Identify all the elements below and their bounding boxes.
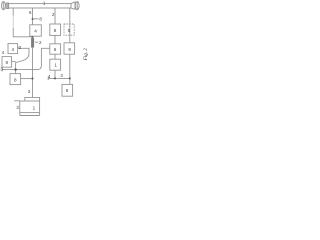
svg-text:4: 4 xyxy=(12,47,15,52)
svg-text:5: 5 xyxy=(68,28,71,33)
svg-text:8: 8 xyxy=(68,47,71,52)
svg-text:6: 6 xyxy=(54,47,57,52)
svg-text:8: 8 xyxy=(66,88,69,93)
svg-text:1: 1 xyxy=(33,106,36,111)
svg-text:Fig. 2: Fig. 2 xyxy=(83,48,89,62)
svg-text:1: 1 xyxy=(54,62,57,67)
svg-text:8: 8 xyxy=(6,60,9,65)
svg-text:8: 8 xyxy=(54,28,57,33)
svg-text:4: 4 xyxy=(34,29,37,34)
svg-text:8: 8 xyxy=(14,77,17,82)
